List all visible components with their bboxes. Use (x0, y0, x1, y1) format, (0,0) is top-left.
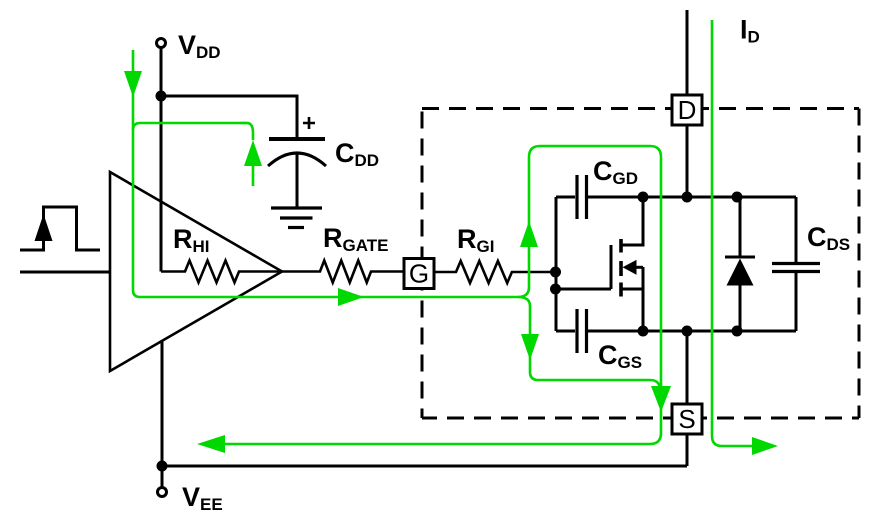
drain line from top (686, 10, 689, 95)
VEE rail (162, 466, 687, 487)
gate rail (555, 197, 558, 331)
green wire: CDD branch riser lower stub (252, 166, 255, 186)
wire S box down (686, 434, 689, 466)
dashed MOSFET model box (422, 109, 859, 419)
driver U1 triangle (110, 172, 282, 371)
green arrowhead up (to CGD loop) (520, 221, 538, 247)
svg-text:D: D (678, 95, 697, 125)
wire: gate lead (556, 288, 611, 291)
junction: gate node (RGI) (550, 267, 561, 278)
capacitor CDD (268, 139, 326, 207)
green arrowhead down (CGS branch) (521, 334, 539, 360)
resistor RHI (161, 261, 282, 283)
junction: gate node (MOSFET gate) (550, 284, 561, 295)
green wire: ID drain current path (712, 20, 752, 446)
wire source to S box (686, 331, 689, 404)
gate electrode (610, 245, 613, 289)
green wire: CDD branch to supply path (133, 123, 247, 130)
channel segment (drain) (619, 239, 623, 253)
junction: drain rail / CGD (638, 192, 649, 203)
svg-text:S: S (678, 404, 695, 434)
capacitor CDS (772, 197, 820, 331)
junction: drain rail / D line (682, 192, 693, 203)
green arrowhead down (VDD) (124, 71, 142, 97)
wire: driver low side to VEE rail (161, 341, 164, 466)
wire: VDD vertical into driver (160, 48, 163, 272)
wire: drain stub (621, 197, 643, 245)
green wire: gate-source branch (down, right to S) (518, 297, 660, 390)
green wire: gate-drain loop (up, over CGD, down to S, return to VEE) (225, 146, 661, 444)
transistor Q1 (MOSFET) (556, 197, 643, 331)
capacitor CGS (556, 309, 643, 353)
resistor RGI (434, 261, 556, 283)
junction: source rail / diode (732, 326, 743, 337)
VEE terminal (158, 488, 167, 497)
green arrowhead left (return path) (197, 435, 225, 453)
top rail (drain) (643, 196, 796, 199)
junction: source rail / S line (682, 326, 693, 337)
channel segment (source) (619, 283, 623, 297)
svg-text:G: G (409, 259, 429, 289)
node G box (404, 259, 434, 289)
wire: input to driver (20, 271, 110, 274)
channel segment (body) (619, 261, 623, 276)
capacitor CGD (556, 175, 643, 219)
green arrowhead right (gate drive) (338, 288, 364, 306)
green arrowhead right (ID out) (752, 437, 778, 455)
node D box (672, 95, 702, 125)
body diode (725, 197, 755, 331)
green wire: CDD branch riser (240, 123, 253, 140)
wire: source stub (621, 288, 643, 291)
wire: source vertical (642, 267, 645, 331)
input pulse symbol (20, 207, 100, 250)
wire: body tail (635, 266, 643, 269)
node S box (672, 404, 702, 434)
junction: source rail / CGS (638, 326, 649, 337)
junction dot VDD (156, 91, 167, 102)
green arrowhead up (CDD) (244, 140, 262, 166)
junction dot VEE (157, 461, 168, 472)
plus sign (303, 117, 315, 129)
junction: drain rail / diode (732, 192, 743, 203)
resistor RGATE (282, 261, 404, 283)
green wire: VDD supply path down to gate-drive output (133, 50, 518, 297)
input pulse arrow (35, 214, 53, 241)
bottom rail (source) (643, 330, 796, 333)
wire D box to rail (686, 125, 689, 197)
wire: VDD to CDD (161, 96, 297, 138)
ground (271, 208, 322, 228)
green arrowhead down (at S) (651, 386, 671, 412)
MOSFET body arrow (623, 260, 637, 275)
VDD terminal (157, 39, 166, 48)
